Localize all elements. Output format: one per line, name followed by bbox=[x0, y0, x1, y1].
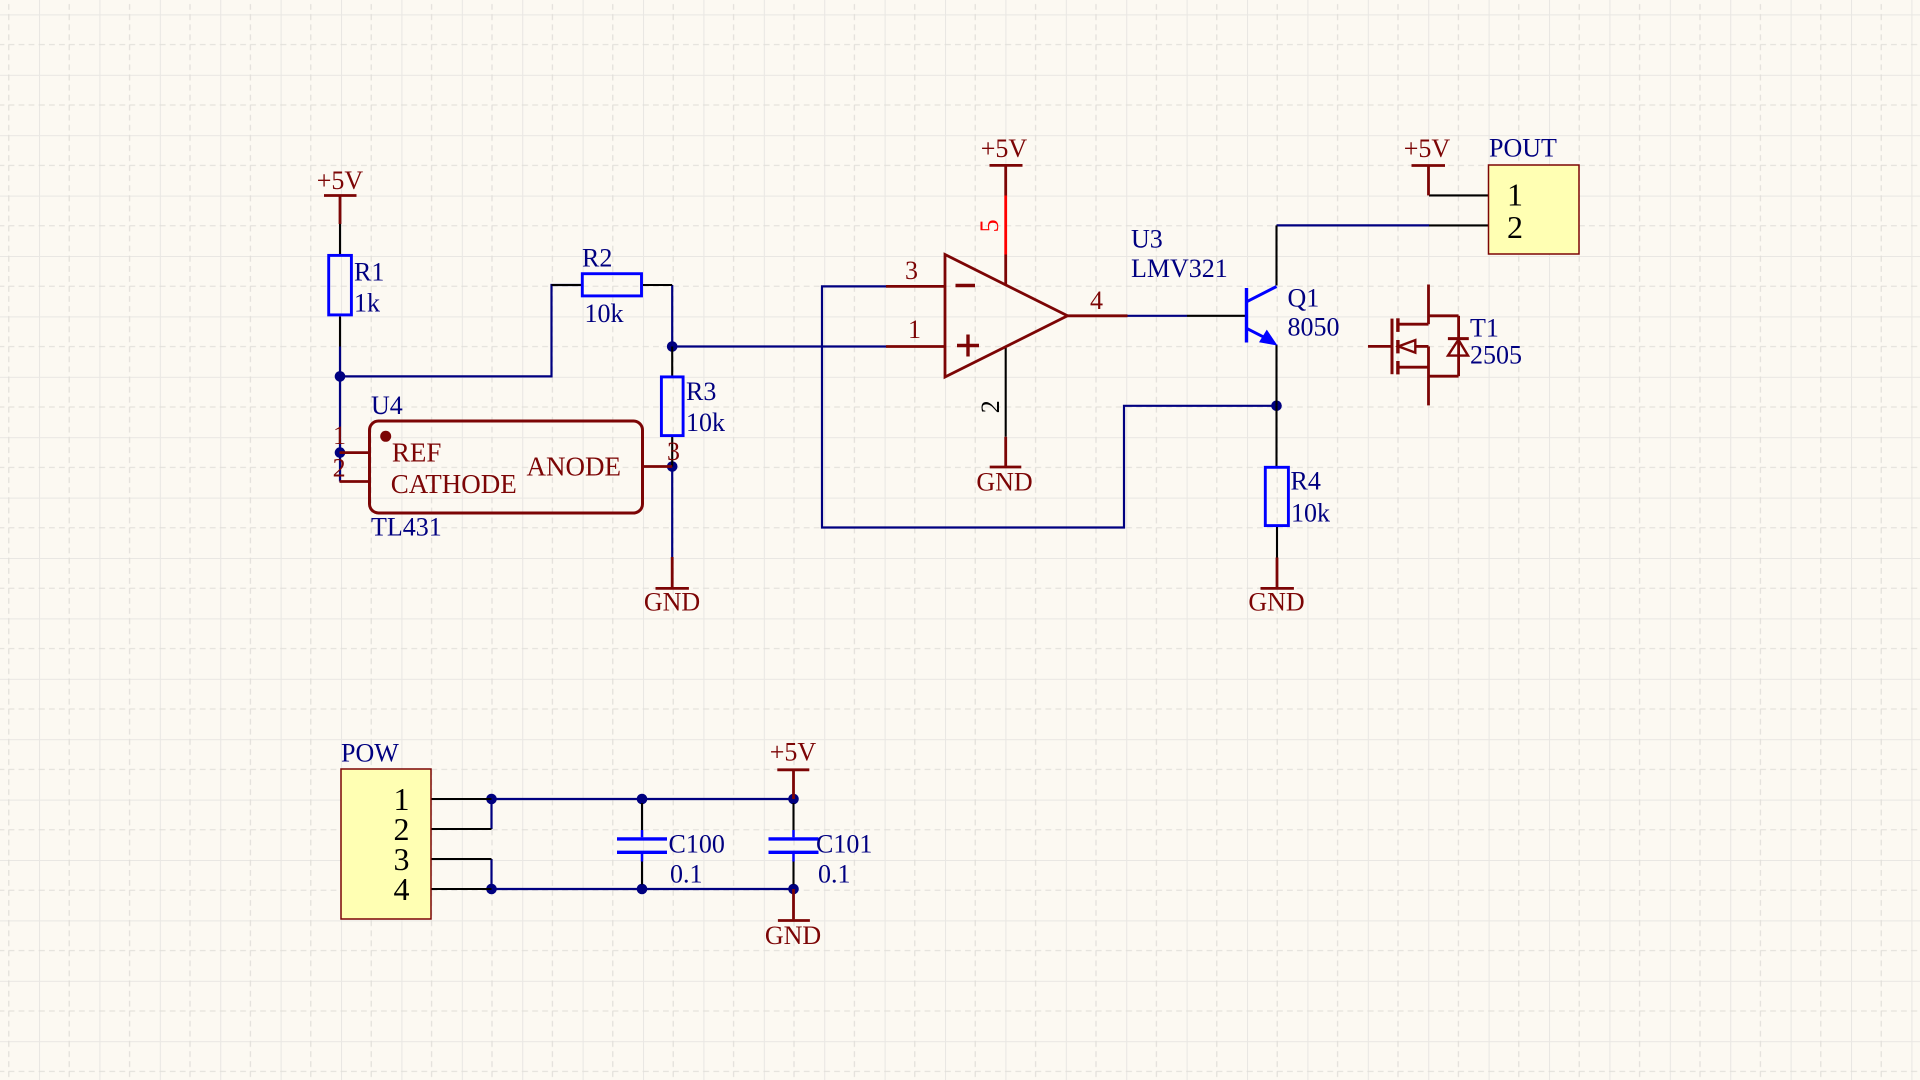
svg-text:POW: POW bbox=[341, 739, 399, 768]
svg-text:+5V: +5V bbox=[981, 134, 1028, 163]
svg-text:5: 5 bbox=[975, 219, 1004, 232]
svg-text:+5V: +5V bbox=[317, 166, 364, 195]
svg-text:2: 2 bbox=[1507, 209, 1523, 245]
svg-text:4: 4 bbox=[394, 871, 410, 907]
svg-text:POUT: POUT bbox=[1489, 134, 1557, 163]
svg-text:2505: 2505 bbox=[1470, 341, 1522, 370]
svg-text:1k: 1k bbox=[354, 289, 380, 318]
svg-text:2: 2 bbox=[976, 400, 1005, 413]
svg-text:1: 1 bbox=[1507, 177, 1523, 213]
svg-text:3: 3 bbox=[905, 256, 918, 285]
svg-text:U3: U3 bbox=[1131, 225, 1163, 254]
svg-text:R2: R2 bbox=[582, 244, 612, 273]
svg-text:+5V: +5V bbox=[770, 738, 817, 767]
svg-text:C101: C101 bbox=[816, 830, 872, 859]
svg-text:0.1: 0.1 bbox=[818, 860, 851, 889]
svg-text:U4: U4 bbox=[371, 391, 403, 420]
svg-text:1: 1 bbox=[333, 421, 346, 450]
svg-text:4: 4 bbox=[1090, 286, 1103, 315]
svg-text:R1: R1 bbox=[354, 258, 384, 287]
svg-text:R3: R3 bbox=[686, 377, 716, 406]
svg-text:C100: C100 bbox=[669, 830, 725, 859]
svg-text:8050: 8050 bbox=[1288, 313, 1340, 342]
svg-text:Q1: Q1 bbox=[1288, 284, 1320, 313]
svg-text:GND: GND bbox=[976, 468, 1032, 497]
svg-text:1: 1 bbox=[908, 315, 921, 344]
svg-text:GND: GND bbox=[644, 588, 700, 617]
svg-text:TL431: TL431 bbox=[371, 513, 442, 542]
svg-text:0.1: 0.1 bbox=[670, 860, 703, 889]
svg-text:GND: GND bbox=[765, 921, 821, 950]
svg-text:10k: 10k bbox=[585, 299, 624, 328]
svg-text:R4: R4 bbox=[1291, 467, 1321, 496]
svg-text:+5V: +5V bbox=[1404, 134, 1451, 163]
svg-text:REF: REF bbox=[392, 438, 442, 468]
svg-text:2: 2 bbox=[333, 454, 346, 483]
svg-text:3: 3 bbox=[667, 437, 680, 466]
svg-text:LMV321: LMV321 bbox=[1131, 254, 1228, 283]
svg-text:T1: T1 bbox=[1470, 314, 1499, 343]
svg-text:GND: GND bbox=[1248, 588, 1304, 617]
svg-text:10k: 10k bbox=[686, 408, 725, 437]
svg-text:CATHODE: CATHODE bbox=[391, 469, 517, 499]
svg-text:ANODE: ANODE bbox=[527, 452, 622, 482]
svg-text:10k: 10k bbox=[1291, 499, 1330, 528]
